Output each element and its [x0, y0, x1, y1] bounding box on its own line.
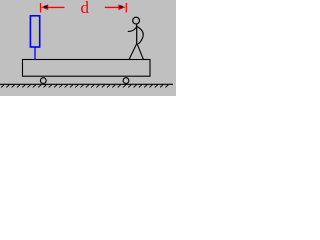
dimension right line	[105, 6, 119, 8]
dimension left tick	[40, 3, 42, 13]
dimension left arrowhead	[41, 4, 48, 10]
right wheel	[123, 78, 129, 84]
dimension right tick	[125, 3, 127, 13]
blue block	[30, 16, 39, 47]
background	[0, 0, 176, 96]
left wheel	[40, 78, 46, 84]
dimension left arrowhead black part	[44, 6, 47, 8]
person head	[133, 17, 140, 24]
ground line	[0, 83, 173, 85]
svg-text:d: d	[81, 0, 90, 17]
person right leg	[137, 44, 143, 60]
person right arm	[137, 27, 143, 45]
cart body	[23, 60, 151, 77]
dimension right arrowhead black part	[119, 6, 122, 8]
dimension right arrowhead	[118, 4, 125, 10]
dimension left line	[48, 6, 65, 8]
person body	[136, 24, 138, 44]
person left arm	[128, 27, 137, 31]
ground hatching	[1, 85, 168, 88]
blue stem	[34, 47, 36, 60]
person left leg	[129, 44, 137, 60]
